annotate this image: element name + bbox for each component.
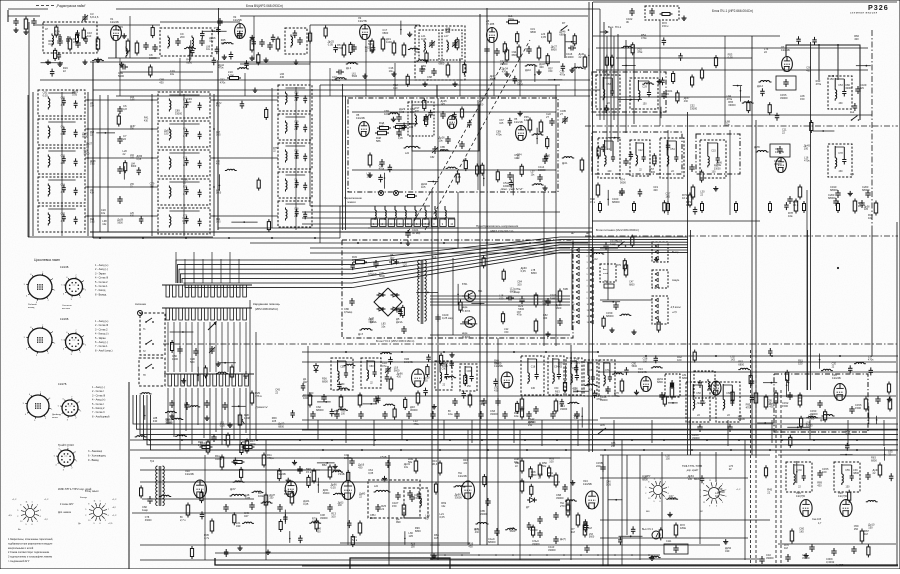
svg-text:6: 6: [660, 501, 661, 503]
svg-text:5: 5: [587, 274, 589, 276]
svg-text:2 Схема соответствует подклю: 2 Схема соответствует подключению: [8, 551, 49, 554]
capacitor C118b: [553, 514, 558, 516]
svg-text:Блок ПЧ-1 (ИР2.666.004Сп): Блок ПЧ-1 (ИР2.666.004Сп): [712, 9, 753, 13]
capacitor C53: [211, 436, 216, 438]
svg-text:схемная версия: схемная версия: [850, 11, 878, 15]
bus wire y356: [598, 355, 898, 357]
svg-text:0,05: 0,05: [182, 219, 188, 223]
svg-text:5: 5: [23, 403, 25, 405]
resistor R8 4700: [342, 45, 346, 55]
nch extra part 1: [200, 513, 205, 515]
capacitor C96b 10а: [452, 400, 457, 402]
svg-text:33000: 33000: [532, 542, 540, 546]
svg-text:1Ж27Б: 1Ж27Б: [58, 382, 67, 386]
svg-text:240к: 240к: [198, 443, 204, 447]
ground: [538, 70, 540, 73]
resistor R34: [534, 295, 538, 305]
svg-text:33000: 33000: [323, 492, 330, 495]
right block fill part 2: [808, 416, 811, 417]
svg-text:1К5: 1К5: [312, 520, 317, 524]
NCh fill part 1: [263, 502, 266, 503]
zhel uzel extra part 12: [496, 172, 499, 180]
filter cell A4: [38, 177, 85, 203]
ground: [239, 546, 241, 549]
svg-text:6: 6: [587, 280, 589, 282]
wire: [210, 99, 278, 101]
VCh band B part 10: [463, 65, 466, 73]
vertical wires comb to comb: [167, 322, 169, 372]
bus wire 3: [302, 429, 898, 431]
VCh band B part 12: [409, 32, 411, 35]
filter cell B5: [158, 208, 210, 234]
svg-text:Др67: Др67: [130, 126, 136, 128]
transformer Tr3: [418, 260, 420, 264]
svg-text:6800: 6800: [871, 459, 877, 463]
svg-text:4: 4: [55, 464, 57, 466]
capacitor C518 10000: [385, 462, 390, 464]
svg-text:5600: 5600: [556, 306, 562, 310]
capacitor C108b: [223, 506, 228, 508]
PCh2 fill B part 3: [654, 357, 659, 359]
svg-text:0,05: 0,05: [90, 222, 95, 224]
svg-text:Вых. ПЧ-1: Вых. ПЧ-1: [608, 25, 622, 29]
svg-text:3 - Экран: 3 - Экран: [95, 272, 106, 275]
tube L16 1K24B: [194, 480, 207, 498]
tank C146 220: [435, 361, 452, 390]
resistor bank mid: [312, 471, 316, 481]
capacitor C145: [584, 547, 589, 549]
capacitor C24: [440, 113, 445, 115]
VCh band B part 1: [406, 76, 409, 84]
svg-text:(ИР2.068.092Сп): (ИР2.068.092Сп): [255, 307, 278, 311]
svg-text:1Ж27Б: 1Ж27Б: [358, 19, 367, 23]
svg-text:С32: С32: [61, 155, 66, 157]
wire column joins: [99, 95, 101, 232]
capacitor C117 1мкр: [603, 244, 608, 246]
pch2 extra part 2: [423, 390, 428, 392]
resistor R63 54в: [358, 523, 362, 533]
wire: [430, 334, 570, 336]
PCh1 fill C part 6: [812, 39, 817, 41]
nch mid fill part 1: [284, 510, 286, 524]
svg-text:о о: о о: [69, 406, 73, 408]
capacitor C102: [629, 10, 634, 12]
resistor R60 100к: [264, 495, 268, 505]
svg-text:430: 430: [55, 33, 60, 37]
pch2 extra part 8: [451, 352, 453, 355]
svg-text:4: 4: [25, 414, 27, 416]
capacitor C20 102: [494, 50, 499, 52]
right block fill part 3: [845, 445, 850, 447]
capacitor C29: [379, 161, 384, 163]
capacitor C21 110: [526, 48, 531, 50]
zhel uzel extra part 7: [476, 166, 479, 174]
svg-text:33000: 33000: [175, 112, 183, 116]
pitanie fill part 7: [623, 261, 626, 269]
wire: [27, 95, 29, 237]
svg-text:33000: 33000: [728, 103, 736, 107]
vertical wire bundle center: [175, 252, 177, 283]
svg-text:7: 7: [425, 223, 427, 226]
wire: [592, 220, 760, 222]
svg-text:430: 430: [499, 296, 504, 300]
wire: [310, 24, 420, 26]
wire bottom edge: [302, 565, 898, 567]
VCh band A part 12: [55, 27, 58, 35]
svg-text:6800: 6800: [559, 33, 565, 37]
svg-text:470к: 470к: [560, 72, 566, 76]
zhel uzel extra part 14: [519, 111, 521, 114]
capacitor C142 33000: [533, 408, 538, 410]
tank E: [548, 356, 564, 395]
PCh1 fill A part 10: [737, 85, 739, 87]
converter fill part 8: [459, 302, 462, 310]
svg-text:12: 12: [648, 498, 650, 500]
resistor R9: [370, 41, 374, 51]
wire right border extend: [871, 226, 873, 356]
PCh1 fill C part 10: [853, 105, 858, 107]
top band gapfill2 part 3: [573, 36, 576, 44]
wire: [607, 248, 609, 300]
svg-text:1 Закреплены, отмеченные таре: 1 Закреплены, отмеченные тарелочный,: [8, 538, 53, 541]
svg-text:В52: В52: [322, 463, 327, 467]
VCh band A part 20: [121, 62, 123, 64]
capacitor C25 0,7: [445, 138, 450, 140]
svg-text:33000: 33000: [560, 407, 568, 411]
zhel uzel fill part 3: [423, 100, 426, 108]
svg-text:5600: 5600: [649, 170, 655, 174]
tank G0: [584, 360, 597, 396]
VCh band A part 14: [190, 50, 195, 52]
resistor R59 2,7к: [186, 505, 190, 515]
capacitor C162b 33000: [809, 546, 814, 548]
svg-text:1К5: 1К5: [309, 395, 314, 398]
svg-text:ВЫХ: ВЫХ: [694, 478, 700, 481]
svg-text:С29: С29: [642, 85, 647, 88]
svg-text:15 к: 15 к: [590, 200, 596, 204]
svg-text:мкра: мкра: [462, 306, 468, 309]
svg-text:о о: о о: [65, 456, 69, 458]
matrix link fill part 5: [137, 169, 142, 171]
PCh2 fill B part 14: [868, 406, 870, 424]
svg-text:4: 4: [587, 268, 589, 270]
svg-text:Др72: Др72: [216, 103, 222, 105]
svg-text:150: 150: [393, 86, 398, 90]
svg-text:L22: L22: [405, 152, 410, 155]
zhel uzel fill part 11: [388, 166, 393, 168]
svg-text:10к: 10к: [531, 173, 536, 176]
PCh1 fill B part 11: [653, 156, 656, 164]
wire long vertical: [217, 60, 219, 230]
svg-text:10: 10: [573, 304, 576, 306]
NCh fill part 10: [224, 551, 229, 553]
svg-text:47а: 47а: [382, 364, 387, 368]
svg-text:12: 12: [88, 520, 90, 522]
PCh1 fill B part 10: [715, 186, 717, 189]
ground: [97, 58, 99, 61]
wire: [452, 258, 454, 335]
svg-text:Др98: Др98: [90, 161, 96, 163]
right block fill part 8: [805, 553, 807, 556]
svg-text:100: 100: [479, 402, 484, 406]
svg-text:33000: 33000: [774, 162, 782, 166]
wire: [302, 351, 598, 353]
gz fill part 8: [197, 367, 199, 382]
svg-text:1Ж24Б: 1Ж24Б: [781, 48, 790, 52]
pch2 extra part 3: [493, 380, 498, 382]
svg-text:L25: L25: [130, 213, 135, 215]
wire: [457, 192, 459, 248]
zhel uzel fill part 12: [509, 182, 514, 184]
ladder rails left matrix: [32, 92, 34, 236]
capacitor C159 68000: [613, 304, 618, 306]
svg-text:1Ж24Б: 1Ж24Б: [110, 20, 119, 24]
svg-text:5: 5: [17, 510, 18, 512]
capacitor C144 33000: [537, 532, 542, 534]
VCh band B part 11: [534, 64, 536, 82]
svg-text:1Р: 1Р: [45, 28, 48, 31]
resistor R41c 100к: [308, 395, 312, 405]
svg-text:8: 8: [49, 398, 51, 400]
ground: [651, 556, 653, 559]
svg-text:430: 430: [153, 419, 158, 423]
wire bundle horizontal from converter to comb: [176, 237, 688, 283]
pch1 left extra part 4: [676, 93, 679, 101]
wire: [778, 543, 896, 545]
capacitor C5: [57, 40, 62, 42]
svg-text:1К5: 1К5: [272, 419, 277, 423]
svg-text:Блок ВЧ(ИР2.068.093Сп): Блок ВЧ(ИР2.068.093Сп): [246, 4, 283, 8]
svg-text:0,05: 0,05: [728, 55, 734, 59]
tube L17 U24B: [341, 481, 355, 500]
VCh block bottom border 2: [218, 227, 592, 229]
svg-text:Вых ОЧ 2: Вых ОЧ 2: [642, 528, 654, 531]
svg-text:100: 100: [688, 477, 693, 481]
svg-text:150: 150: [854, 527, 859, 531]
svg-text:С55: С55: [845, 469, 850, 472]
pch2 extra part 1: [462, 393, 467, 395]
svg-text:2: 2: [71, 468, 73, 470]
capacitor C155b: [875, 398, 880, 400]
nch mid fill part 2: [334, 464, 336, 467]
svg-text:4/9: 4/9: [860, 86, 864, 90]
switch Kn2: [851, 119, 853, 121]
svg-text:0,05: 0,05: [130, 100, 135, 102]
svg-text:22: 22: [832, 365, 835, 368]
nch extra part 6: [384, 476, 386, 479]
inductor Dr8: [362, 329, 365, 331]
resistor R3: [96, 39, 100, 49]
NCh fill part 13: [347, 472, 350, 480]
svg-text:подбираются при разрешении в м: подбираются при разрешении в модуле: [8, 542, 53, 545]
svg-text:помехи: помехи: [347, 201, 356, 204]
top band gapfill part 5: [200, 33, 205, 35]
right block fill part 9: [884, 447, 886, 461]
VCh band B part 26: [503, 44, 506, 52]
long verticals center-bottom: [497, 338, 499, 545]
capacitor C168 22: [623, 160, 628, 162]
wire: [120, 71, 213, 73]
capacitor C117b 33000: [537, 518, 542, 520]
nch extra part 12: [527, 524, 532, 526]
PCh2 fill A part 17: [577, 390, 579, 392]
ground: [206, 416, 208, 419]
capacitor C28 variable: [562, 118, 567, 120]
svg-text:6800: 6800: [738, 363, 744, 367]
VCh band B part 20: [333, 47, 338, 49]
ground: [544, 186, 546, 189]
PCh1 fill A part 5: [691, 77, 694, 85]
gz fill part 1: [171, 343, 174, 351]
svg-text:8: 8: [88, 504, 89, 506]
matrix link fill part 7: [105, 132, 107, 134]
svg-text:7: 7: [42, 325, 44, 327]
svg-text:100: 100: [90, 106, 95, 108]
switch contact G2: [146, 340, 152, 344]
capacitor column C small 3: [117, 168, 122, 170]
PCh2 fill A part 23: [464, 376, 467, 384]
inductor L1: [52, 36, 54, 39]
resistor R72 150к: [662, 13, 670, 16]
zhel uzel fill part 20: [467, 122, 472, 124]
svg-text:3,3032: 3,3032: [826, 560, 835, 564]
wire: [436, 85, 438, 98]
wire vertical x819: [818, 45, 820, 80]
PCh2 fill A part 1: [340, 388, 343, 389]
svg-text:10а: 10а: [448, 412, 453, 416]
svg-text:22: 22: [666, 92, 669, 96]
pitanie fill part 4: [602, 318, 605, 326]
PCh1 fill A part 4: [662, 39, 667, 41]
resistor R16: [517, 47, 521, 57]
filter cell C1: [278, 85, 312, 111]
svg-text:470к: 470к: [804, 159, 810, 163]
switch Vkl: [618, 245, 620, 247]
wire mesh top center: [93, 89, 600, 91]
svg-text:метка: метка: [52, 417, 59, 419]
tube socket pins view 3: [62, 400, 78, 416]
bottom control fill part 7: [651, 556, 654, 557]
svg-text:12: 12: [703, 502, 705, 504]
diode bridge D3 D21A: [374, 288, 402, 316]
svg-text:Блок ПЧ 2 (ИР2 068 016Сп): Блок ПЧ 2 (ИР2 068 016Сп): [376, 339, 414, 343]
wire: [85, 215, 158, 217]
pitanie fill part 6: [622, 314, 625, 315]
trim capacitor: [209, 348, 214, 350]
PCh2 fill B part 8: [636, 390, 638, 393]
VCh band B part 4: [410, 48, 413, 49]
arrow out: [600, 31, 608, 33]
svg-text:7: 7: [573, 286, 575, 288]
svg-text:3: 3: [665, 498, 666, 500]
svg-text:3 - Сетка III: 3 - Сетка III: [92, 394, 105, 397]
ground: [683, 16, 685, 19]
resistor R13h 1,0м: [230, 77, 239, 80]
VCh band B part 5: [548, 33, 551, 41]
PCh1 fill B part 9: [693, 209, 698, 211]
svg-text:4: 4: [26, 296, 28, 298]
tube L13b 1K29B: [586, 491, 599, 509]
svg-text:4: 4: [665, 482, 666, 484]
svg-text:2: 2: [80, 297, 82, 299]
wire top right frame: [593, 1, 897, 3]
svg-text:С92: С92: [294, 92, 299, 94]
NCh fill part 8: [315, 521, 318, 529]
svg-text:22: 22: [442, 384, 445, 387]
svg-text:L81: L81: [90, 103, 95, 105]
meter output: [652, 531, 660, 539]
nch extra part 8: [240, 469, 243, 477]
svg-text:100: 100: [341, 412, 346, 415]
resistor R25: [580, 160, 584, 170]
tube L14: [711, 381, 721, 395]
bus wire left block bottom: [130, 439, 898, 441]
PCh1 fill A part 6: [744, 102, 747, 103]
right block fill part 4: [889, 475, 894, 477]
svg-text:470к: 470к: [220, 81, 226, 85]
tube L7 1K21B: [516, 126, 527, 141]
svg-text:0,05: 0,05: [573, 389, 579, 393]
resistor R1: [24, 19, 28, 29]
wire: [210, 215, 278, 217]
pch1 left extra part 2: [678, 55, 683, 57]
resistor R48c 10в: [520, 399, 524, 409]
svg-text:6: 6: [573, 280, 575, 282]
svg-text:1М: 1М: [588, 526, 592, 530]
svg-text:5: 5: [58, 406, 60, 408]
svg-text:С90: С90: [294, 208, 299, 210]
NCh fill part 26: [335, 493, 338, 494]
junction ticks bottom: [444, 554, 446, 556]
zhel uzel extra part 5: [546, 139, 549, 147]
svg-text:430: 430: [531, 387, 536, 390]
PCh2 fill B part 5: [764, 422, 766, 424]
svg-text:Др12: Др12: [592, 258, 598, 261]
capacitor C179 150: [689, 166, 694, 168]
connector column 1: [576, 248, 579, 251]
svg-text:0,05: 0,05: [216, 222, 221, 224]
pch2 extra part 13: [587, 384, 590, 385]
svg-text:0,05: 0,05: [220, 424, 226, 428]
ground: [265, 58, 267, 61]
svg-text:1Ж24Б: 1Ж24Б: [832, 376, 841, 380]
zhel uzel fill part 19: [402, 125, 407, 127]
svg-text:4: 4: [63, 294, 65, 296]
resistor R64 col 3: [538, 465, 542, 475]
svg-text:С76: С76: [294, 150, 299, 152]
svg-text:1: 1: [100, 501, 101, 503]
capacitor C2: [31, 20, 36, 22]
svg-text:22: 22: [183, 165, 186, 167]
svg-text:30000: 30000: [410, 408, 418, 412]
capacitor column C small 4: [117, 198, 122, 200]
NCh fill part 14: [311, 522, 314, 523]
svg-text:430: 430: [653, 188, 658, 192]
VCh band B part 17: [371, 47, 376, 49]
svg-text:4: 4: [26, 349, 28, 351]
svg-text:1мкр: 1мкр: [550, 296, 557, 300]
resistor R40 15к: [596, 185, 600, 195]
svg-text:1: 1: [85, 344, 87, 346]
resistor R21 586: [378, 131, 387, 134]
svg-text:5: 5: [61, 285, 63, 287]
PCh2 fill B part 11: [876, 416, 878, 425]
capacitor C72 1мкр: [545, 300, 550, 302]
filter cell C2: [278, 114, 312, 140]
wire: [85, 186, 158, 188]
right lower dashed border x756: [755, 350, 757, 566]
svg-text:L94: L94: [130, 155, 135, 157]
